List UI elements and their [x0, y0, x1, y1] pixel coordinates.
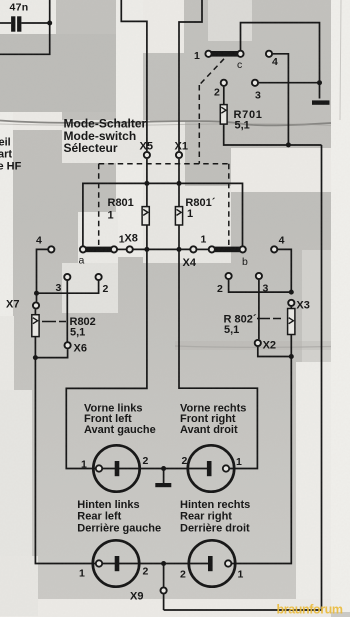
- resistor R802 left chevron: [33, 318, 38, 324]
- wire pin4a left and down to X7 node: [37, 249, 48, 301]
- switch b pin 2 terminal: [226, 273, 232, 279]
- front right speaker circle: [188, 445, 234, 491]
- connector X5 terminal: [144, 152, 150, 158]
- rear left speaker terminal circle: [96, 560, 102, 566]
- node R802L/X6: [33, 355, 38, 360]
- svg-text:3: 3: [255, 90, 261, 102]
- wire pin4b right and down to X3 node: [278, 249, 291, 292]
- node rear speakers / X9: [161, 561, 166, 566]
- dashed actuator vertical to linkage rail: [198, 85, 200, 164]
- svg-text:Avant gauche: Avant gauche: [84, 424, 156, 436]
- resistor R701 body: [220, 105, 227, 125]
- svg-text:X6: X6: [74, 343, 87, 355]
- rear left speaker circle: [93, 540, 139, 586]
- wire through front speakers: [96, 468, 207, 470]
- resistor R801 right body: [175, 207, 182, 225]
- switch b bar right terminal: [240, 246, 246, 252]
- resistor R802 left leader dash: [42, 321, 66, 323]
- wire switch c pin3 to ground node: [259, 82, 320, 84]
- switch a pin 2 terminal: [96, 274, 102, 280]
- svg-text:art: art: [0, 149, 12, 161]
- node R802R/X2: [289, 354, 294, 359]
- node bar wire / X1 line: [177, 247, 182, 252]
- front left speaker circle: [93, 445, 139, 491]
- background white patch left of Mode text: [62, 120, 150, 163]
- svg-text:Derrière gauche: Derrière gauche: [77, 522, 161, 534]
- rear right speaker circle: [189, 540, 235, 586]
- svg-text:1: 1: [187, 208, 193, 220]
- switch c pin 3 terminal: [252, 80, 258, 86]
- switch a bar left terminal: [80, 246, 86, 252]
- wire switch c right terminal up to ground rail: [241, 23, 320, 99]
- resistor R802 right chevron: [289, 318, 294, 324]
- background white patch: [143, 0, 184, 53]
- switch c pin 4 terminal: [266, 51, 272, 57]
- wire R701 bottom to ground rail: [224, 124, 322, 145]
- wire R801 left to bar wire: [146, 225, 148, 249]
- resistor R802 right body: [288, 309, 295, 335]
- connector X9 terminal: [161, 587, 167, 593]
- wire pin3a down to X6: [66, 281, 68, 342]
- ground symbol front speakers: [155, 483, 171, 487]
- svg-text:X8: X8: [124, 233, 137, 245]
- wire X3 to R802 right: [290, 307, 292, 309]
- wire through rear speakers: [96, 563, 208, 565]
- background white left margin: [0, 112, 13, 320]
- wire pin2a down and left to X7 node: [37, 281, 99, 293]
- dashed actuator diagonal from switch c: [199, 59, 224, 85]
- wire bar a right to X8: [118, 248, 126, 250]
- svg-text:Sélecteur: Sélecteur: [64, 141, 118, 155]
- background white right margin band: [331, 0, 350, 612]
- background white left strip bottom: [0, 316, 14, 606]
- wire switch c pin4 to R701 bottom node: [273, 54, 289, 145]
- svg-text:1: 1: [79, 568, 85, 580]
- rear left speaker bar: [115, 556, 120, 571]
- switch c bar left terminal: [205, 51, 211, 57]
- svg-text:Hinten rechts: Hinten rechts: [180, 499, 250, 511]
- wire R802 left bottom to node: [34, 337, 36, 358]
- wire R801 right to bar wire: [178, 225, 180, 249]
- svg-text:Rear left: Rear left: [77, 511, 121, 523]
- svg-text:X5: X5: [140, 141, 153, 153]
- background light patch top mid: [208, 0, 252, 41]
- svg-text:5,1: 5,1: [70, 326, 85, 338]
- wire node to front ground: [163, 469, 165, 484]
- background white patch pins23 a: [62, 263, 118, 313]
- node R701 wire / pin4c: [286, 142, 291, 147]
- switch b bar left terminal: [209, 246, 215, 252]
- switch a bar: [86, 247, 113, 253]
- connector X3 terminal: [288, 300, 294, 306]
- wire node down and left to edge: [0, 23, 50, 54]
- switch b pin 4 terminal: [271, 246, 277, 252]
- svg-text:R801: R801: [108, 197, 134, 209]
- wire node down to rear left speaker: [35, 358, 95, 564]
- wire node up to top edge: [49, 0, 51, 23]
- wire left edge to capacitor: [0, 22, 11, 24]
- svg-text:Avant droit: Avant droit: [180, 424, 238, 436]
- wire capacitor to node: [21, 22, 49, 24]
- wire top edge to X1 (stepped): [179, 0, 202, 151]
- resistor R801 left body: [142, 207, 149, 225]
- wire X9 down to ground return rail: [163, 594, 165, 610]
- svg-text:2: 2: [182, 455, 188, 467]
- dashed linkage drop to switch b: [228, 164, 230, 245]
- wire R802 right bottom to node: [290, 335, 292, 357]
- rear right speaker terminal circle: [225, 560, 231, 566]
- node rail / X1 line: [177, 181, 182, 186]
- svg-text:braunforum: braunforum: [277, 603, 343, 617]
- dashed linkage rail horizontal: [99, 163, 229, 165]
- svg-text:c: c: [237, 59, 242, 71]
- svg-text:2: 2: [143, 455, 149, 467]
- svg-text:X1: X1: [175, 141, 188, 153]
- connector X4 terminal: [190, 246, 196, 252]
- svg-text:a: a: [79, 255, 85, 267]
- svg-text:4: 4: [272, 56, 278, 68]
- svg-text:X9: X9: [130, 591, 143, 603]
- wire X7 to R802 left: [34, 309, 36, 314]
- svg-text:e HF: e HF: [0, 161, 22, 173]
- switch c bar right terminal: [237, 51, 243, 57]
- wire X1 down to rail: [178, 159, 180, 207]
- background white vertical band: [116, 0, 143, 257]
- svg-text:2: 2: [214, 87, 220, 99]
- wire rear node down to X9: [163, 564, 165, 587]
- switch a pin 3 terminal: [64, 274, 70, 280]
- ground return rail right side: [164, 145, 322, 610]
- resistor R801 right chevron: [177, 209, 182, 215]
- front right speaker terminal circle: [223, 465, 229, 471]
- front left speaker terminal circle: [96, 465, 102, 471]
- resistor R802 left body: [32, 315, 39, 337]
- wire switch c pin2 down to R701: [223, 87, 225, 105]
- rear right speaker bar: [208, 556, 213, 571]
- background white patch around R801 left: [78, 212, 118, 263]
- node pin4a/pin2a/X7: [34, 291, 39, 296]
- background white bottom strip: [0, 599, 331, 617]
- svg-text:Derrière droit: Derrière droit: [180, 522, 250, 534]
- connector X2 terminal: [255, 340, 261, 346]
- svg-text:47n: 47n: [10, 1, 29, 13]
- background light band right: [302, 250, 331, 364]
- wire X2 down right to node: [258, 347, 292, 357]
- fold mark in right margin: [340, 0, 341, 120]
- svg-text:2: 2: [180, 569, 186, 581]
- wire X4 to bar b: [197, 248, 208, 250]
- front left speaker bar: [115, 461, 120, 476]
- svg-text:1: 1: [238, 569, 244, 581]
- background white patch around R801 right: [184, 186, 231, 263]
- svg-text:3: 3: [56, 282, 62, 294]
- horizontal rail above switches a b: [83, 183, 243, 245]
- wire X5 line down to front left staple: [66, 249, 147, 468]
- wire X8 to X4 terminal (bar wire): [134, 248, 190, 250]
- ground symbol top right: [312, 100, 330, 104]
- node at capacitor junction: [47, 21, 52, 26]
- node front speakers / ground: [161, 466, 166, 471]
- svg-text:4: 4: [279, 235, 285, 247]
- switch b pin 3 terminal: [256, 273, 262, 279]
- svg-text:X2: X2: [263, 340, 276, 352]
- capacitor C 47n plates: [11, 16, 15, 31]
- wire X1 line down to front right staple: [179, 249, 257, 468]
- wire X6 down left to node: [35, 349, 67, 357]
- svg-text:X7: X7: [6, 299, 19, 311]
- svg-text:1: 1: [108, 210, 114, 222]
- svg-text:1: 1: [236, 456, 242, 468]
- svg-text:eil: eil: [0, 137, 11, 149]
- scan crease line mid right: [175, 341, 331, 350]
- svg-text:5,1: 5,1: [235, 120, 250, 132]
- svg-text:X3: X3: [296, 300, 309, 312]
- svg-text:X4: X4: [183, 257, 197, 269]
- svg-text:2: 2: [143, 566, 149, 578]
- connector X8 terminal: [127, 246, 133, 252]
- svg-text:1: 1: [201, 234, 207, 246]
- svg-text:1: 1: [194, 50, 200, 62]
- switch c pin 2 terminal: [221, 80, 227, 86]
- wire pin3b down to X2: [258, 280, 260, 339]
- wire pin2b down and right to X3 node: [229, 280, 292, 292]
- switch a bar right terminal: [111, 246, 117, 252]
- node pin4b/pin2b/X3: [289, 290, 294, 295]
- connector X7 terminal: [33, 302, 39, 308]
- svg-text:2: 2: [103, 283, 109, 295]
- dashed linkage drop to switch a: [98, 164, 100, 245]
- wire X5 down to rail: [146, 159, 148, 207]
- switch a pin 4 terminal: [48, 246, 54, 252]
- svg-text:1: 1: [81, 459, 87, 471]
- svg-text:Rear right: Rear right: [180, 511, 232, 523]
- switch c bar: [211, 51, 239, 57]
- background white bottom left corner: [0, 556, 38, 616]
- svg-text:2: 2: [217, 283, 223, 295]
- connector X6 terminal: [65, 342, 71, 348]
- node bar wire / X5 line: [144, 247, 149, 252]
- background white patch top-left 47n: [0, 0, 56, 34]
- switch b bar: [214, 247, 240, 253]
- front right speaker bar: [207, 461, 212, 476]
- wire top edge to X5 (stepped): [121, 0, 147, 151]
- node pin3 / ground: [317, 80, 322, 85]
- node rail / X5 line: [144, 181, 149, 186]
- resistor R802 right leader dash: [257, 318, 281, 320]
- wire node down to rear right speaker: [232, 357, 291, 564]
- scan crease line upper: [0, 121, 331, 126]
- svg-text:5,1: 5,1: [224, 324, 239, 336]
- resistor R801 left chevron: [143, 209, 148, 215]
- background white patch right middle: [231, 148, 331, 192]
- svg-text:Hinten links: Hinten links: [77, 499, 139, 511]
- resistor R701 chevron: [221, 107, 226, 113]
- svg-text:4: 4: [36, 235, 42, 247]
- svg-text:b: b: [242, 256, 248, 268]
- connector X1 terminal: [176, 152, 182, 158]
